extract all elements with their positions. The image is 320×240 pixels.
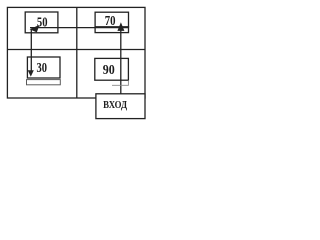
faint pointer cell hint under 90: [112, 80, 128, 85]
wire: drop from node 50 to node 30: [30, 29, 32, 72]
vertical divider: [76, 7, 78, 98]
node cell 70 pointer: [95, 27, 128, 33]
svg-text:70: 70: [105, 14, 116, 29]
outer frame: [7, 7, 145, 98]
horizontal divider: [7, 49, 145, 51]
node cell 70 value: [95, 12, 128, 27]
wire: riser from input box to node 70: [120, 30, 122, 94]
node cell 30: [27, 57, 60, 78]
svg-text:90: 90: [103, 63, 115, 78]
svg-text:30: 30: [37, 61, 48, 76]
node cell 50: [25, 12, 58, 33]
input box ВХОД (covers bottom border behind it): [96, 94, 145, 119]
svg-text:ВХОД: ВХОД: [103, 99, 127, 111]
arrowhead down into node 30: [28, 70, 34, 76]
svg-text:50: 50: [37, 15, 48, 30]
wire: horizontal arrow line from node 70 to node 50: [30, 27, 129, 29]
arrowhead left into node 50: [30, 25, 40, 33]
arrowhead up into node 70: [117, 22, 124, 31]
pointer cell under 30: [27, 80, 61, 85]
node cell 90: [95, 58, 129, 80]
